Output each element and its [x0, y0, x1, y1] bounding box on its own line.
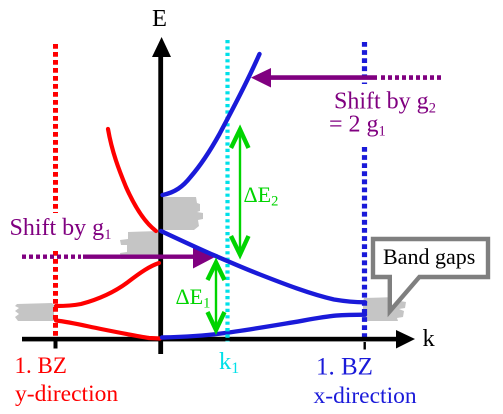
svg-text:1. BZ: 1. BZ	[316, 354, 373, 381]
svg-text:Shift by g1: Shift by g1	[10, 215, 112, 243]
svg-text:1. BZ: 1. BZ	[15, 353, 67, 378]
svg-text:x-direction: x-direction	[314, 383, 417, 409]
svg-text:y-direction: y-direction	[15, 381, 118, 407]
svg-text:= 2 g1: = 2 g1	[329, 112, 386, 140]
svg-text:k: k	[423, 325, 436, 352]
svg-text:E: E	[152, 5, 167, 32]
svg-text:Band gaps: Band gaps	[383, 244, 475, 269]
